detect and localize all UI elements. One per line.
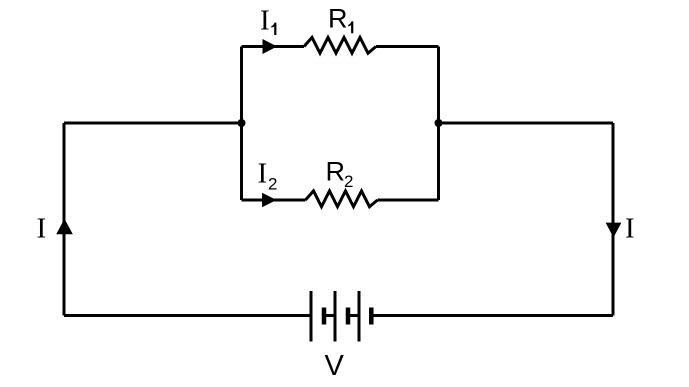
wire: top branch right segment <box>376 45 439 48</box>
svg-text:I: I <box>37 213 47 245</box>
wire: outer left middle horizontal to node A <box>64 122 242 125</box>
wire: outer left vertical <box>63 123 66 316</box>
arrow I1 (current direction on top branch) <box>263 39 278 54</box>
svg-text:I: I <box>258 158 268 190</box>
arrow I2 (current direction on bottom branch) <box>262 193 277 208</box>
wire: top branch left segment <box>242 45 305 48</box>
battery V (three cells) <box>311 291 371 342</box>
wire: bottom branch left segment <box>242 199 306 202</box>
label R1 <box>328 4 353 34</box>
short plate cell1 <box>322 308 327 325</box>
short plate cell2 <box>346 308 351 325</box>
resistor R1 <box>304 37 376 53</box>
wire: bottom left horizontal to battery <box>64 314 311 317</box>
svg-text:R: R <box>326 157 346 187</box>
label I2 <box>258 158 278 194</box>
svg-text:I: I <box>625 213 635 245</box>
wire: inner loop right vertical <box>437 47 440 201</box>
svg-text:2: 2 <box>268 175 277 194</box>
label R2 <box>326 157 354 192</box>
node B (right junction dot) <box>435 119 443 127</box>
arrow I up (left outer wire) <box>56 219 73 235</box>
connector cell2-cell3 <box>348 314 359 317</box>
wire: bottom branch right segment <box>378 199 439 202</box>
wire: inner loop left vertical <box>240 47 243 201</box>
connector cell1-cell2 <box>324 314 335 317</box>
wire: bottom right horizontal from battery <box>371 314 613 317</box>
wire: outer right vertical <box>612 123 615 316</box>
long plate cell2 <box>334 291 337 342</box>
wire: outer right middle horizontal from node B <box>439 122 614 125</box>
long plate cell3 <box>358 291 361 342</box>
short plate cell3 <box>369 308 374 325</box>
svg-text:I: I <box>260 5 270 37</box>
arrow I down (right outer wire) <box>606 223 622 238</box>
svg-text:V: V <box>325 350 345 382</box>
label I1 <box>260 5 276 37</box>
svg-text:R: R <box>328 4 348 34</box>
long plate cell1 <box>310 291 313 342</box>
resistor R2 <box>306 191 378 207</box>
node A (left junction dot) <box>238 119 246 127</box>
svg-text:2: 2 <box>344 172 353 191</box>
